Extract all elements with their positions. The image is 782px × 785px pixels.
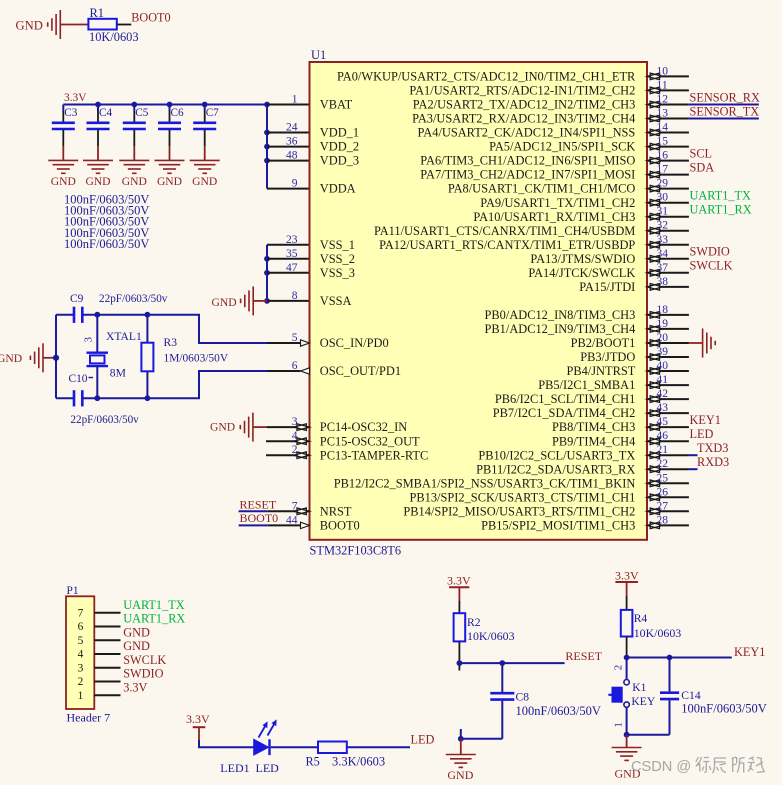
svg-text:3: 3 <box>83 337 95 343</box>
pin 1 (P1) <box>94 694 120 696</box>
pin 13 stub <box>662 118 689 120</box>
svg-text:PB8/TIM4_CH3: PB8/TIM4_CH3 <box>552 420 635 434</box>
svg-text:GND: GND <box>122 175 147 188</box>
svg-text:PA6/TIM3_CH1/ADC12_IN6/SPI1_MI: PA6/TIM3_CH1/ADC12_IN6/SPI1_MISO <box>420 154 635 168</box>
svg-text:36: 36 <box>286 136 298 148</box>
svg-text:Header 7: Header 7 <box>67 710 111 724</box>
svg-text:GND: GND <box>123 639 150 653</box>
svg-text:5: 5 <box>78 635 84 647</box>
svg-text:RESET: RESET <box>240 497 277 511</box>
svg-text:PA1/USART2_RTS/ADC12-IN1/TIM2_: PA1/USART2_RTS/ADC12-IN1/TIM2_CH2 <box>409 84 635 98</box>
junction dots KEY <box>624 655 630 661</box>
svg-text:C6: C6 <box>171 107 184 119</box>
ground symbol (PB2/BOOT1) <box>703 329 716 358</box>
resistor R5 <box>318 742 347 754</box>
svg-text:UART1_RX: UART1_RX <box>690 203 752 217</box>
svg-text:2: 2 <box>612 665 624 671</box>
capacitor C6 <box>158 105 181 161</box>
svg-text:PB4/JNTRST: PB4/JNTRST <box>566 364 635 378</box>
svg-text:PA0/WKUP/USART2_CTS/ADC12_IN0/: PA0/WKUP/USART2_CTS/ADC12_IN0/TIM2_CH1_E… <box>337 70 636 84</box>
svg-text:31: 31 <box>657 206 669 218</box>
pin 14 stub <box>662 132 689 134</box>
svg-text:C3: C3 <box>64 107 77 119</box>
connector P1 body <box>66 596 94 709</box>
capacitor C8 <box>490 663 514 739</box>
pin 12 stub <box>662 104 689 106</box>
pin OSC_OUT/PD1 <box>267 370 301 372</box>
crystal XTAL1 <box>87 315 109 399</box>
svg-text:P1: P1 <box>67 585 79 597</box>
svg-text:PA2/USART2_TX/ADC12_IN2/TIM2_C: PA2/USART2_TX/ADC12_IN2/TIM2_CH3 <box>413 98 636 112</box>
svg-text:PC15-OSC32_OUT: PC15-OSC32_OUT <box>320 434 420 448</box>
svg-text:GND: GND <box>51 175 76 188</box>
svg-text:PA12/USART1_RTS/CANTX/TIM1_ETR: PA12/USART1_RTS/CANTX/TIM1_ETR/USBDP <box>379 238 635 252</box>
svg-text:32: 32 <box>657 220 669 232</box>
pin 46 stub <box>662 440 689 442</box>
wire 3.3V to LED1 <box>199 740 254 747</box>
svg-text:22: 22 <box>657 458 669 470</box>
pin VDDA <box>267 188 310 190</box>
svg-text:PA3/USART2_RX/ADC12_IN3/TIM2_C: PA3/USART2_RX/ADC12_IN3/TIM2_CH4 <box>412 112 635 126</box>
pin 40 stub <box>662 370 689 372</box>
pin 26 stub <box>662 496 689 498</box>
svg-text:40: 40 <box>657 360 669 372</box>
svg-text:UART1_RX: UART1_RX <box>123 612 185 626</box>
resistor R3 <box>141 315 153 399</box>
svg-text:28: 28 <box>657 514 669 526</box>
svg-text:VSS_2: VSS_2 <box>320 252 355 266</box>
pin 41 stub <box>662 384 689 386</box>
junction dots VSS column <box>264 256 270 262</box>
svg-text:VDD_3: VDD_3 <box>320 154 359 168</box>
pin 17 stub <box>662 174 689 176</box>
svg-text:27: 27 <box>657 500 669 512</box>
svg-text:3.3V: 3.3V <box>615 569 639 583</box>
svg-text:VSS_3: VSS_3 <box>320 266 355 280</box>
wire PB2 to GND <box>689 342 703 344</box>
svg-text:15: 15 <box>657 136 669 148</box>
junction dots crystal <box>94 312 100 318</box>
wire R2 to RESET node <box>458 641 460 670</box>
pin 6 (P1) <box>94 626 120 628</box>
svg-text:GND: GND <box>85 175 110 188</box>
svg-text:SDA: SDA <box>690 160 715 174</box>
wire LED1 to R5 <box>271 746 318 748</box>
svg-text:PA14/JTCK/SWCLK: PA14/JTCK/SWCLK <box>528 266 635 280</box>
svg-text:9: 9 <box>292 178 298 190</box>
wire KEY1 net <box>627 657 732 659</box>
pin 2 (P1) <box>94 681 120 683</box>
svg-text:48: 48 <box>286 150 298 162</box>
svg-text:24: 24 <box>286 122 298 134</box>
svg-text:PB2/BOOT1: PB2/BOOT1 <box>571 336 636 350</box>
svg-text:GND: GND <box>16 19 43 33</box>
svg-text:42: 42 <box>657 388 669 400</box>
svg-text:30: 30 <box>657 192 669 204</box>
svg-text:35: 35 <box>286 248 298 260</box>
junction dots on 3.3V rail <box>95 102 101 108</box>
pin 22 stub <box>662 468 689 470</box>
svg-text:3: 3 <box>78 662 84 674</box>
svg-text:GND: GND <box>447 768 473 782</box>
svg-text:26: 26 <box>657 486 669 498</box>
svg-text:R2: R2 <box>467 616 481 629</box>
svg-text:39: 39 <box>657 346 669 358</box>
pin VDD_2 <box>267 146 310 148</box>
pin VDD_3 <box>267 160 310 162</box>
svg-text:GND: GND <box>192 175 217 188</box>
svg-text:PA8/USART1_CK/TIM1_CH1/MCO: PA8/USART1_CK/TIM1_CH1/MCO <box>448 182 635 196</box>
svg-text:10K/0603: 10K/0603 <box>634 626 682 640</box>
wire R1 to BOOT0 <box>117 24 132 26</box>
ground symbol (PC14) <box>240 413 253 442</box>
svg-text:SENSOR_TX: SENSOR_TX <box>690 104 760 118</box>
ground symbol (crystal) <box>30 343 43 372</box>
svg-text:VBAT: VBAT <box>320 98 353 112</box>
svg-text:PB15/SPI2_MOSI/TIM1_CH3: PB15/SPI2_MOSI/TIM1_CH3 <box>481 519 635 533</box>
svg-text:C10: C10 <box>69 373 88 385</box>
pin VDD_1 <box>267 132 310 134</box>
svg-text:PA5/ADC12_IN5/SPI1_SCK: PA5/ADC12_IN5/SPI1_SCK <box>489 140 635 154</box>
svg-text:29: 29 <box>657 178 669 190</box>
pin 31 stub <box>662 216 689 218</box>
pin VSS_1 <box>267 244 310 246</box>
resistor R1 <box>88 19 116 30</box>
svg-text:U1: U1 <box>311 48 326 62</box>
svg-text:UART1_TX: UART1_TX <box>123 598 185 612</box>
svg-text:R1: R1 <box>90 6 104 20</box>
svg-text:PB7/I2C1_SDA/TIM4_CH2: PB7/I2C1_SDA/TIM4_CH2 <box>493 406 636 420</box>
svg-text:47: 47 <box>286 262 298 274</box>
svg-text:LED: LED <box>411 733 435 747</box>
wire C8 to GND corner <box>461 738 503 740</box>
capacitor C9 <box>73 307 76 323</box>
svg-text:BOOT0: BOOT0 <box>240 511 279 525</box>
svg-text:PC14-OSC32_IN: PC14-OSC32_IN <box>320 420 407 434</box>
wire R5 to LED net <box>347 746 410 748</box>
capacitor C14 <box>660 658 679 735</box>
junction dots RESET <box>457 660 463 666</box>
ground under C3 <box>48 160 78 173</box>
svg-text:SWCLK: SWCLK <box>690 259 733 273</box>
svg-text:PB11/I2C2_SDA/USART3_RX: PB11/I2C2_SDA/USART3_RX <box>476 462 635 476</box>
ground symbol (R1 block) <box>48 10 61 39</box>
wire VSS column <box>266 245 268 301</box>
svg-text:LED: LED <box>690 427 714 441</box>
svg-text:KEY1: KEY1 <box>690 413 721 427</box>
pin 38 stub <box>662 286 689 288</box>
svg-text:3.3K/0603: 3.3K/0603 <box>332 754 385 768</box>
pin VSSA <box>267 300 310 302</box>
svg-text:6: 6 <box>78 621 84 633</box>
watermark CSDN <box>631 757 765 775</box>
svg-text:PB3/JTDO: PB3/JTDO <box>580 350 635 364</box>
wire stub RXD3 <box>689 468 698 470</box>
pin 37 stub <box>662 272 689 274</box>
svg-text:8M: 8M <box>110 367 126 380</box>
wire BOOT0 to pin 44 <box>239 524 268 526</box>
svg-text:SENSOR_RX: SENSOR_RX <box>690 90 761 104</box>
pin 21 stub <box>662 454 689 456</box>
svg-text:22pF/0603/50v: 22pF/0603/50v <box>70 414 139 426</box>
svg-text:PB0/ADC12_IN8/TIM3_CH3: PB0/ADC12_IN8/TIM3_CH3 <box>485 308 636 322</box>
wire stub TXD3 <box>689 454 698 456</box>
svg-text:GND: GND <box>212 296 237 309</box>
resistor R4 <box>621 610 633 637</box>
power symbol 3.3V (LED) <box>193 726 206 728</box>
svg-text:PB6/I2C1_SCL/TIM4_CH1: PB6/I2C1_SCL/TIM4_CH1 <box>495 392 635 406</box>
svg-text:PA11/USART1_CTS/CANRX/TIM1_CH4: PA11/USART1_CTS/CANRX/TIM1_CH4/USBDM <box>374 224 635 238</box>
pin 25 stub <box>662 482 689 484</box>
svg-text:22pF/0603/50v: 22pF/0603/50v <box>99 293 168 305</box>
svg-text:TXD3: TXD3 <box>697 441 728 455</box>
svg-text:SCL: SCL <box>690 146 713 160</box>
svg-text:21: 21 <box>657 444 669 456</box>
wire 3.3V to R4 <box>626 596 628 610</box>
svg-text:RXD3: RXD3 <box>697 455 729 469</box>
svg-text:C8: C8 <box>516 691 530 704</box>
svg-text:CSDN @: CSDN @ <box>631 759 691 775</box>
wire GND to VSSA <box>253 300 267 302</box>
pin 34 stub <box>662 258 689 260</box>
svg-text:K1: K1 <box>632 681 646 694</box>
svg-text:19: 19 <box>657 318 669 330</box>
svg-text:GND: GND <box>0 352 22 365</box>
power symbol 3.3V (R2) <box>449 586 469 588</box>
svg-text:C14: C14 <box>681 689 701 702</box>
pin 20 stub <box>662 342 689 344</box>
svg-text:RESET: RESET <box>565 649 602 663</box>
svg-text:100nF/0603/50V: 100nF/0603/50V <box>64 237 149 251</box>
svg-text:KEY: KEY <box>631 695 655 708</box>
svg-text:BOOT0: BOOT0 <box>320 519 360 533</box>
svg-text:11: 11 <box>657 79 668 91</box>
svg-text:8: 8 <box>292 290 298 302</box>
pin 29 stub <box>662 188 689 190</box>
svg-text:1: 1 <box>78 690 84 702</box>
wire 3.3V to R2 <box>458 601 460 613</box>
pin PC15-OSC32_OUT <box>266 440 296 442</box>
wire GND to PC14 <box>253 426 267 428</box>
svg-text:18: 18 <box>657 304 669 316</box>
svg-text:3.3V: 3.3V <box>447 574 471 588</box>
svg-text:4: 4 <box>78 649 84 661</box>
svg-text:PB14/SPI2_MISO/USART3_RTS/TIM1: PB14/SPI2_MISO/USART3_RTS/TIM1_CH2 <box>403 504 635 518</box>
ground symbol (KEY circuit) <box>612 748 642 761</box>
wire crystal left vertical <box>55 315 57 399</box>
svg-text:37: 37 <box>657 262 669 274</box>
pin BOOT0 <box>268 524 301 526</box>
svg-text:GND: GND <box>157 175 182 188</box>
pin 11 stub <box>662 89 689 91</box>
svg-text:C7: C7 <box>206 107 219 119</box>
svg-text:SWDIO: SWDIO <box>690 245 730 259</box>
svg-text:13: 13 <box>657 108 669 120</box>
pin OSC_IN/PD0 <box>267 342 301 344</box>
wire to ground (KEY) <box>626 735 628 748</box>
switch K1 <box>608 658 629 735</box>
wire RESET net <box>459 662 564 664</box>
IC U1 STM32F103C8T6 body <box>310 62 648 540</box>
pin 19 stub <box>662 328 689 330</box>
svg-text:20: 20 <box>657 332 669 344</box>
wire GND to R1 <box>60 24 88 26</box>
wire GND to crystal net <box>43 357 56 359</box>
power symbol 3.3V (R4) <box>615 581 638 583</box>
svg-text:C9: C9 <box>70 293 84 305</box>
svg-text:PB1/ADC12_IN9/TIM3_CH4: PB1/ADC12_IN9/TIM3_CH4 <box>485 322 636 336</box>
svg-text:38: 38 <box>657 276 669 288</box>
pin PC14-OSC32_IN <box>267 426 296 428</box>
capacitor C3 <box>52 105 75 161</box>
svg-text:3.3V: 3.3V <box>64 92 87 104</box>
svg-text:VDD_1: VDD_1 <box>320 126 359 140</box>
pin 15 stub <box>662 146 689 148</box>
svg-text:XTAL1: XTAL1 <box>106 330 142 343</box>
capacitor C10 <box>73 390 76 406</box>
pin 18 stub <box>662 314 689 316</box>
pin 45 stub <box>662 426 689 428</box>
svg-text:R5: R5 <box>306 754 320 768</box>
resistor R2 <box>454 613 466 641</box>
svg-text:33: 33 <box>657 234 669 246</box>
svg-text:7: 7 <box>78 607 84 619</box>
ground under C7 <box>190 160 220 173</box>
svg-text:100nF/0603/50V: 100nF/0603/50V <box>516 704 601 718</box>
pin VSS_2 <box>267 258 310 260</box>
pin VSS_3 <box>267 272 310 274</box>
ground under C5 <box>119 160 149 173</box>
svg-text:OSC_OUT/PD1: OSC_OUT/PD1 <box>320 364 401 378</box>
capacitor C5 <box>123 105 146 161</box>
svg-text:3.3V: 3.3V <box>186 712 210 726</box>
svg-text:VSS_1: VSS_1 <box>320 238 355 252</box>
svg-text:10K/0603: 10K/0603 <box>89 30 139 44</box>
svg-text:45: 45 <box>657 416 669 428</box>
pin VBAT <box>267 104 310 106</box>
svg-text:R4: R4 <box>634 612 648 625</box>
wire RESET to NRST <box>239 510 268 512</box>
svg-text:C5: C5 <box>135 107 148 119</box>
svg-text:34: 34 <box>657 248 669 260</box>
pin 33 stub <box>662 244 689 246</box>
svg-text:16: 16 <box>657 150 669 162</box>
svg-text:10: 10 <box>657 65 669 77</box>
pin 5 (P1) <box>94 639 120 641</box>
svg-text:43: 43 <box>657 402 669 414</box>
pin 10 stub <box>662 75 689 77</box>
pin 42 stub <box>662 398 689 400</box>
wire R4 to KEY1 node <box>626 637 628 658</box>
svg-text:17: 17 <box>657 164 669 176</box>
svg-text:PA15/JTDI: PA15/JTDI <box>579 280 635 294</box>
pin 7 (P1) <box>94 612 120 614</box>
svg-text:23: 23 <box>286 234 298 246</box>
svg-text:KEY1: KEY1 <box>734 645 765 659</box>
pin 16 stub <box>662 160 689 162</box>
wire VDD column <box>266 105 268 189</box>
ground symbol (VSSA) <box>241 286 254 315</box>
capacitor C7 <box>193 105 216 161</box>
wire crystal bottom (OSC_OUT net) <box>56 371 267 398</box>
capacitor C4 <box>87 105 110 161</box>
svg-text:SWCLK: SWCLK <box>123 653 166 667</box>
svg-text:PC13-TAMPER-RTC: PC13-TAMPER-RTC <box>320 448 428 462</box>
svg-text:3.3V: 3.3V <box>123 680 147 694</box>
svg-text:25: 25 <box>657 472 669 484</box>
svg-text:PA4/USART2_CK/ADC12_IN4/SPI1_N: PA4/USART2_CK/ADC12_IN4/SPI1_NSS <box>418 126 636 140</box>
pin 39 stub <box>662 356 689 358</box>
svg-text:R3: R3 <box>164 336 178 349</box>
svg-text:100nF/0603/50V: 100nF/0603/50V <box>681 702 766 716</box>
svg-text:GND: GND <box>210 421 235 434</box>
svg-text:10K/0603: 10K/0603 <box>467 629 515 643</box>
svg-text:PB13/SPI2_SCK/USART3_CTS/TIM1_: PB13/SPI2_SCK/USART3_CTS/TIM1_CH1 <box>410 490 636 504</box>
wire crystal top (OSC_IN net) <box>56 315 267 343</box>
svg-text:UART1_TX: UART1_TX <box>690 189 752 203</box>
svg-text:PA13/JTMS/SWDIO: PA13/JTMS/SWDIO <box>530 252 635 266</box>
svg-text:12: 12 <box>657 94 669 106</box>
pin 32 stub <box>662 230 689 232</box>
wire K1 bottom to C14 <box>627 734 670 736</box>
svg-text:SWDIO: SWDIO <box>123 667 163 681</box>
svg-text:14: 14 <box>657 122 669 134</box>
svg-text:STM32F103C8T6: STM32F103C8T6 <box>310 544 402 558</box>
svg-text:1: 1 <box>292 94 298 106</box>
wire 3.3V rail <box>63 104 267 106</box>
ground under C6 <box>155 160 185 173</box>
wire net SENSOR_TX <box>689 118 759 120</box>
svg-text:PB10/I2C2_SCL/USART3_TX: PB10/I2C2_SCL/USART3_TX <box>478 448 635 462</box>
svg-text:PB5/I2C1_SMBA1: PB5/I2C1_SMBA1 <box>538 378 635 392</box>
wire to ground (RESET) <box>460 739 462 755</box>
svg-text:LED1: LED1 <box>220 761 249 775</box>
svg-text:1: 1 <box>612 722 624 728</box>
svg-text:VDDA: VDDA <box>320 182 356 196</box>
pin 28 stub <box>662 524 689 526</box>
svg-text:C4: C4 <box>99 107 112 119</box>
svg-text:PB12/I2C2_SMBA1/SPI2_NSS/USART: PB12/I2C2_SMBA1/SPI2_NSS/USART3_CK/TIM1_… <box>334 476 636 490</box>
svg-text:OSC_IN/PD0: OSC_IN/PD0 <box>320 336 389 350</box>
pin PC13-TAMPER-RTC <box>266 454 296 456</box>
svg-text:PA7/TIM3_CH2/ADC12_IN7/SPI1_MO: PA7/TIM3_CH2/ADC12_IN7/SPI1_MOSI <box>420 168 635 182</box>
pin 27 stub <box>662 510 689 512</box>
pin NRST <box>268 510 296 512</box>
wire net SENSOR_RX <box>689 104 759 106</box>
svg-text:PB9/TIM4_CH4: PB9/TIM4_CH4 <box>552 434 635 448</box>
ground under C4 <box>83 160 113 173</box>
svg-text:46: 46 <box>657 430 669 442</box>
svg-text:2: 2 <box>78 676 84 688</box>
pin 3 (P1) <box>94 667 120 669</box>
svg-text:PA10/USART1_RX/TIM1_CH3: PA10/USART1_RX/TIM1_CH3 <box>473 210 635 224</box>
svg-text:LED: LED <box>256 761 280 775</box>
ground symbol (RESET circuit) <box>446 755 476 768</box>
svg-text:PA9/USART1_TX/TIM1_CH2: PA9/USART1_TX/TIM1_CH2 <box>480 196 635 210</box>
pin 30 stub <box>662 202 689 204</box>
svg-text:NRST: NRST <box>320 504 352 518</box>
pin 4 (P1) <box>94 653 120 655</box>
svg-text:VDD_2: VDD_2 <box>320 140 359 154</box>
pin 43 stub <box>662 412 689 414</box>
svg-text:41: 41 <box>657 374 669 386</box>
junction dots VDD column <box>264 130 270 136</box>
svg-text:1M/0603/50V: 1M/0603/50V <box>164 352 229 364</box>
LED LED1 <box>254 720 277 755</box>
svg-text:GND: GND <box>123 625 150 639</box>
svg-text:VSSA: VSSA <box>320 294 352 308</box>
svg-text:BOOT0: BOOT0 <box>131 11 170 25</box>
